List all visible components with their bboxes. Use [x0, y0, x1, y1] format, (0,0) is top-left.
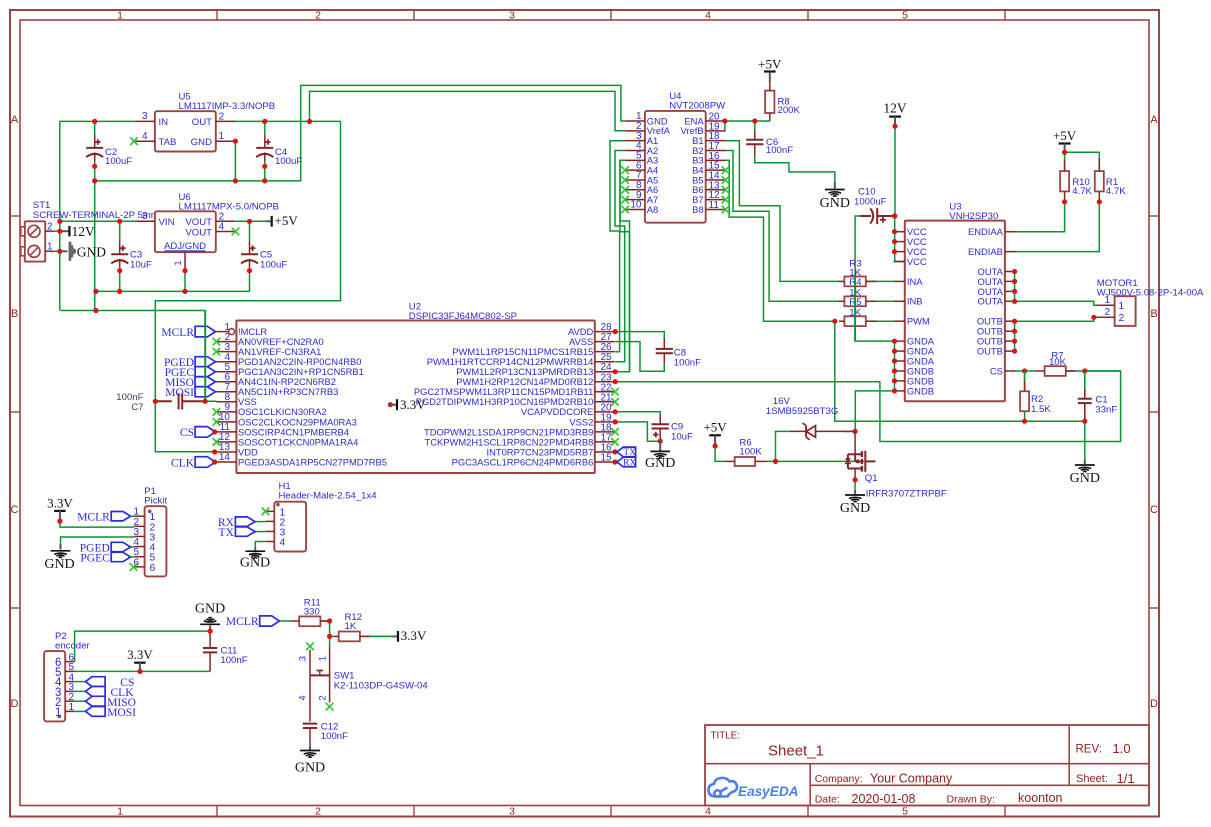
svg-text:GNDB: GNDB — [907, 385, 934, 396]
svg-text:TITLE:: TITLE: — [711, 731, 740, 742]
svg-text:330: 330 — [304, 606, 320, 617]
svg-text:100nF: 100nF — [674, 357, 701, 368]
svg-text:DSPIC33FJ64MC802-SP: DSPIC33FJ64MC802-SP — [409, 311, 517, 322]
svg-text:2: 2 — [219, 111, 225, 122]
svg-text:OUT: OUT — [192, 117, 212, 128]
svg-text:5: 5 — [902, 806, 908, 818]
svg-text:3: 3 — [509, 10, 515, 22]
svg-text:C: C — [11, 504, 19, 516]
svg-text:+5V: +5V — [1053, 128, 1077, 143]
svg-text:100K: 100K — [739, 447, 762, 458]
svg-text:GND: GND — [295, 761, 325, 776]
svg-text:1/1: 1/1 — [1117, 771, 1135, 786]
svg-text:ENDIAB: ENDIAB — [968, 246, 1003, 257]
svg-text:4: 4 — [280, 538, 286, 549]
svg-text:GND: GND — [820, 196, 850, 211]
svg-text:3: 3 — [298, 656, 308, 661]
svg-text:3: 3 — [509, 806, 515, 818]
svg-text:PGC3ASCL1RP6CN24PMD6RB6: PGC3ASCL1RP6CN24PMD6RB6 — [452, 456, 594, 467]
svg-text:B: B — [11, 308, 18, 320]
svg-text:+5V: +5V — [275, 213, 299, 228]
svg-text:1: 1 — [117, 10, 123, 22]
svg-text:REV:: REV: — [1076, 744, 1102, 756]
svg-text:1: 1 — [69, 702, 75, 713]
svg-text:5: 5 — [902, 10, 908, 22]
svg-text:12V: 12V — [883, 101, 907, 116]
svg-text:GND: GND — [195, 602, 225, 617]
svg-text:D: D — [11, 698, 19, 710]
svg-text:10uF: 10uF — [130, 259, 152, 270]
svg-text:encoder: encoder — [55, 640, 90, 651]
svg-text:B8: B8 — [692, 204, 703, 215]
svg-text:MCLR: MCLR — [77, 512, 110, 524]
svg-text:1: 1 — [1104, 295, 1110, 306]
svg-text:Sheet:: Sheet: — [1076, 773, 1108, 785]
svg-text:1: 1 — [55, 707, 61, 719]
svg-text:PGEC: PGEC — [80, 552, 110, 564]
svg-text:INA: INA — [907, 276, 923, 287]
svg-text:1.5K: 1.5K — [1031, 404, 1051, 415]
svg-text:CS: CS — [990, 365, 1003, 376]
svg-text:4: 4 — [142, 131, 148, 142]
svg-text:EasyEDA: EasyEDA — [738, 784, 798, 799]
svg-text:3: 3 — [142, 111, 148, 122]
svg-text:1: 1 — [47, 241, 53, 252]
svg-text:1.0: 1.0 — [1113, 741, 1131, 756]
svg-text:100nF: 100nF — [766, 145, 793, 156]
svg-text:GND: GND — [77, 245, 106, 260]
svg-text:1K: 1K — [345, 621, 357, 632]
svg-text:GND: GND — [1070, 471, 1100, 486]
svg-text:INB: INB — [907, 296, 923, 307]
svg-text:GND: GND — [240, 556, 270, 571]
svg-text:2: 2 — [1119, 313, 1125, 324]
svg-text:10K: 10K — [1049, 357, 1067, 368]
svg-text:3: 3 — [142, 211, 148, 222]
svg-text:C: C — [1150, 504, 1158, 516]
svg-text:4: 4 — [705, 806, 711, 818]
svg-text:LM1117MPX-5.0/NOPB: LM1117MPX-5.0/NOPB — [179, 201, 279, 212]
svg-text:3.3V: 3.3V — [401, 628, 427, 643]
svg-text:33nF: 33nF — [1095, 404, 1117, 415]
svg-text:GND: GND — [840, 501, 870, 516]
svg-text:GND: GND — [191, 137, 212, 148]
svg-text:2: 2 — [315, 10, 321, 22]
svg-text:4.7K: 4.7K — [1106, 186, 1126, 197]
svg-text:LM1117IMP-3.3/NOPB: LM1117IMP-3.3/NOPB — [179, 101, 276, 112]
svg-text:PGED3ASDA1RP5CN27PMD7RB5: PGED3ASDA1RP5CN27PMD7RB5 — [238, 456, 387, 467]
svg-text:1SMB5925BT3G: 1SMB5925BT3G — [766, 406, 839, 417]
svg-text:100uF: 100uF — [260, 259, 287, 270]
svg-text:IRFR3707ZTRPBF: IRFR3707ZTRPBF — [866, 489, 947, 500]
svg-text:4: 4 — [705, 10, 711, 22]
svg-text:15: 15 — [601, 452, 613, 463]
svg-text:100uF: 100uF — [275, 156, 302, 167]
svg-text:100nF: 100nF — [220, 655, 247, 666]
svg-text:200K: 200K — [778, 105, 801, 116]
svg-text:1: 1 — [117, 806, 123, 818]
svg-text:OUTB: OUTB — [977, 346, 1003, 357]
svg-text:GND: GND — [645, 456, 675, 471]
svg-text:Date:: Date: — [815, 794, 840, 806]
svg-text:12V: 12V — [72, 224, 96, 239]
svg-text:MCLR: MCLR — [161, 327, 194, 339]
svg-text:D: D — [1150, 698, 1158, 710]
svg-text:Drawn By:: Drawn By: — [947, 794, 995, 806]
svg-text:MOSI: MOSI — [165, 387, 194, 399]
svg-text:NVT2008PW: NVT2008PW — [669, 100, 726, 111]
svg-text:CS: CS — [180, 427, 194, 439]
svg-text:+5V: +5V — [703, 420, 727, 435]
svg-text:B: B — [1150, 308, 1157, 320]
svg-text:1: 1 — [219, 131, 225, 142]
svg-text:CLK: CLK — [171, 457, 195, 469]
svg-text:VIN: VIN — [159, 217, 175, 228]
svg-text:ENDIAA: ENDIAA — [968, 226, 1004, 237]
svg-text:Your Company: Your Company — [870, 772, 953, 786]
svg-text:TX: TX — [623, 448, 636, 458]
svg-text:A: A — [1150, 114, 1158, 126]
svg-text:Header-Male-2.54_1x4: Header-Male-2.54_1x4 — [279, 490, 378, 501]
svg-text:3.3V: 3.3V — [127, 647, 153, 662]
svg-text:1000uF: 1000uF — [854, 196, 887, 207]
svg-text:PWM: PWM — [907, 316, 930, 327]
svg-text:4.7K: 4.7K — [1072, 186, 1092, 197]
svg-text:MCLR: MCLR — [226, 616, 259, 628]
svg-text:1: 1 — [1119, 301, 1125, 312]
svg-text:Sheet_1: Sheet_1 — [768, 743, 824, 760]
svg-text:GND: GND — [44, 557, 74, 572]
svg-text:3.3V: 3.3V — [400, 397, 426, 412]
svg-text:+5V: +5V — [758, 57, 782, 72]
svg-text:Company:: Company: — [815, 773, 863, 785]
svg-text:VCC: VCC — [907, 256, 927, 267]
svg-text:2020-01-08: 2020-01-08 — [852, 792, 916, 806]
svg-text:C7: C7 — [131, 402, 143, 413]
svg-text:100uF: 100uF — [105, 156, 132, 167]
svg-text:2: 2 — [315, 806, 321, 818]
svg-text:1: 1 — [173, 260, 183, 265]
svg-text:2: 2 — [317, 695, 327, 700]
svg-text:11: 11 — [709, 200, 720, 211]
svg-text:TX: TX — [219, 527, 235, 539]
svg-text:10: 10 — [630, 200, 642, 211]
svg-text:MOSI: MOSI — [107, 707, 136, 719]
svg-text:SCREW-TERMINAL-2P 5mm: SCREW-TERMINAL-2P 5mm — [33, 210, 159, 221]
svg-text:Pickit: Pickit — [144, 496, 167, 507]
svg-text:A8: A8 — [647, 204, 658, 215]
svg-text:OUTA: OUTA — [978, 296, 1004, 307]
svg-text:10uF: 10uF — [671, 431, 693, 442]
svg-text:4: 4 — [298, 695, 308, 700]
svg-text:K2-1103DP-G4SW-04: K2-1103DP-G4SW-04 — [334, 681, 429, 692]
svg-text:TAB: TAB — [159, 137, 177, 148]
svg-text:koonton: koonton — [1018, 791, 1063, 805]
svg-text:VNH2SP30: VNH2SP30 — [949, 211, 998, 222]
svg-text:RX: RX — [623, 458, 636, 468]
svg-text:A: A — [11, 114, 19, 126]
svg-text:2: 2 — [47, 221, 53, 232]
svg-text:Q1: Q1 — [865, 473, 878, 484]
svg-text:3.3V: 3.3V — [47, 495, 73, 510]
svg-text:6: 6 — [150, 563, 156, 574]
svg-text:WJ500V-5.08-2P-14-00A: WJ500V-5.08-2P-14-00A — [1097, 288, 1204, 299]
svg-text:2: 2 — [1104, 307, 1110, 318]
svg-text:1: 1 — [317, 656, 327, 661]
svg-text:4: 4 — [219, 222, 225, 233]
svg-text:IN: IN — [159, 117, 169, 128]
svg-text:14: 14 — [219, 452, 231, 463]
svg-text:VOUT: VOUT — [185, 227, 212, 238]
svg-text:100nF: 100nF — [321, 731, 348, 742]
